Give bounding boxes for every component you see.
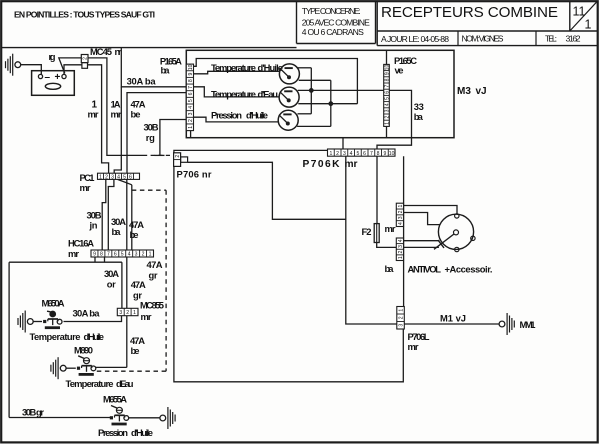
svg-text:8: 8 (100, 252, 103, 258)
svg-text:P706 nr: P706 nr (177, 168, 212, 179)
svg-text:gr: gr (149, 269, 158, 280)
svg-text:2: 2 (398, 210, 404, 213)
wire 30B gr left edge down (8, 262, 10, 417)
wire antivol lower pin1 to tick (404, 240, 440, 242)
svg-text:HC16A: HC16A (68, 238, 94, 249)
wire ground to M650A (33, 321, 42, 323)
wire ground to battery - terminal (21, 65, 42, 75)
label Pression d Huile (sensor) (98, 427, 153, 438)
svg-text:mr: mr (68, 248, 79, 259)
svg-text:8: 8 (188, 79, 194, 82)
svg-text:EN POINTILLES : TOUS TYPES SAU: EN POINTILLES : TOUS TYPES SAUF GTI (14, 9, 155, 19)
bus v1 vertical (310, 68, 312, 114)
connector strip antivol upper (396, 203, 404, 226)
ground (M890) (51, 357, 66, 379)
connector strip PC1 (98, 173, 140, 180)
svg-text:1: 1 (384, 122, 390, 125)
label Temperature d Huile (sensor) (30, 331, 105, 342)
gauge temperature huile (279, 64, 299, 84)
svg-text:1: 1 (398, 205, 404, 208)
svg-text:gr: gr (133, 289, 142, 300)
bus v2 vertical (330, 80, 332, 126)
svg-text:6: 6 (363, 151, 366, 157)
connector strip P706K (328, 149, 396, 157)
svg-text:8: 8 (384, 78, 390, 81)
connector strip P165A (186, 64, 193, 131)
svg-text:be: be (130, 229, 139, 240)
gauge temperature eau (279, 87, 299, 107)
svg-text:or: or (107, 278, 116, 289)
svg-text:3: 3 (398, 216, 404, 219)
sensor M650A temperature huile (43, 311, 62, 328)
svg-text:30A ba: 30A ba (127, 75, 157, 86)
svg-text:5: 5 (121, 252, 124, 258)
svg-text:–: – (45, 72, 51, 83)
label 33 ba (414, 101, 424, 122)
svg-text:4: 4 (128, 252, 131, 258)
header: type concerne box (297, 1, 376, 43)
wire gauge2 output to P165C pin6 (298, 89, 384, 91)
connector MC45 (81, 55, 88, 69)
junction dot v2 (329, 102, 333, 106)
P165C stub to box top (386, 50, 388, 64)
svg-text:Temperature: Temperature (211, 88, 256, 99)
label Pression d Huile (gauge) (211, 109, 268, 120)
svg-text:jn: jn (89, 220, 98, 231)
label P165C ve (394, 55, 417, 76)
svg-text:5: 5 (356, 151, 359, 157)
svg-text:4 OU 6 CADRANS: 4 OU 6 CADRANS (302, 27, 364, 37)
label ANTIVOL +Accessoir. (408, 264, 493, 275)
dashed wire 47A gr horizontal (132, 189, 166, 191)
svg-text:7: 7 (370, 151, 373, 157)
svg-text:9: 9 (188, 73, 194, 76)
wire M1 vJ to ground MM1 (404, 323, 499, 325)
svg-text:Pression: Pression (211, 109, 242, 120)
svg-text:7: 7 (107, 252, 110, 258)
wire loop P706 down around to P706L (174, 166, 403, 381)
svg-text:1: 1 (398, 256, 404, 259)
svg-text:7: 7 (188, 86, 194, 89)
svg-text:Temperature: Temperature (211, 62, 256, 73)
svg-text:MM1: MM1 (520, 319, 536, 330)
label MC45 nr (90, 46, 122, 57)
battery BB1 (32, 71, 75, 96)
wire P165A pin7 to gauge2 left (194, 87, 280, 97)
wire 1A mr : MC45 top to P706 (88, 58, 143, 155)
wire feed line gauge2 lower to L1 (298, 103, 357, 105)
ground MM1 (499, 313, 514, 335)
wire 47A be PC1 pin5 to HC16A (126, 179, 128, 250)
wire P706 output to junction (188, 162, 346, 219)
label Temperature d Huile (gauge) (211, 62, 283, 73)
svg-text:ba: ba (385, 263, 395, 274)
wire 30B gr to M655A (9, 417, 110, 419)
svg-text:ba: ba (161, 65, 171, 76)
label 47A be (131, 99, 146, 120)
label 47A gr (solid wire) (131, 279, 146, 300)
svg-text:TEL:: TEL: (545, 34, 557, 44)
svg-text:M1 vJ: M1 vJ (440, 313, 466, 324)
wire ground to M890 (66, 367, 76, 369)
wire 30A ba PC1 pin3 to HC16A (108, 179, 114, 250)
wire antivol lower to arm end (404, 246, 439, 248)
svg-text:2: 2 (83, 57, 89, 60)
svg-text:M650A: M650A (42, 297, 65, 308)
svg-text:mr: mr (88, 109, 99, 120)
svg-text:1: 1 (188, 126, 194, 129)
svg-text:4: 4 (398, 239, 404, 242)
svg-text:mr: mr (385, 223, 396, 234)
wire battery + to MC45 top (diagonal) (59, 58, 82, 74)
svg-text:be: be (131, 345, 140, 356)
label Temperature d Eau (gauge) (211, 88, 278, 99)
svg-text:205 AVEC COMBINE: 205 AVEC COMBINE (302, 18, 370, 28)
wire from diagonal to HC16A cell3 (131, 185, 133, 250)
svg-text:1: 1 (133, 310, 136, 316)
label M3 vJ (457, 86, 487, 97)
svg-text:mr: mr (141, 311, 152, 322)
svg-text:30A ba: 30A ba (73, 308, 101, 319)
wire 47A be : P165A pin6 to PC1 pin5 (127, 93, 186, 174)
svg-text:4: 4 (350, 151, 353, 157)
junction dot v1 (309, 89, 313, 93)
wire gauge1 upper output to bus v1 (297, 67, 311, 69)
gauge pression huile (278, 110, 298, 130)
svg-text:+Accessoir.: +Accessoir. (445, 264, 493, 275)
svg-text:4: 4 (398, 222, 404, 225)
svg-text:d'Huile: d'Huile (246, 109, 268, 120)
svg-text:2: 2 (142, 252, 145, 258)
P165A stub to box bottom (190, 131, 192, 138)
svg-text:M3: M3 (457, 86, 471, 97)
label 47A be (sensor) (130, 335, 145, 356)
svg-text:MC45: MC45 (90, 46, 112, 57)
ignition switch ANTIVOL circle (434, 214, 475, 252)
svg-text:2: 2 (336, 151, 339, 157)
wire M655A to ground (129, 417, 160, 419)
dashed wire 47A gr to M890 (95, 370, 166, 372)
wire antivol pin1 to top contact (404, 206, 458, 214)
label 30A ba (111, 216, 126, 237)
svg-text:rg: rg (49, 51, 56, 62)
svg-text:30B gr: 30B gr (22, 407, 44, 418)
svg-text:1: 1 (149, 252, 152, 258)
label Temperature d Eau (sensor) (66, 378, 134, 389)
svg-text:5: 5 (188, 99, 194, 102)
label 1 mr (88, 100, 99, 120)
svg-text:6: 6 (129, 175, 132, 181)
connector strip MC855 (117, 308, 138, 316)
wire antivol pin3 stepped to circle (404, 213, 440, 225)
svg-text:9: 9 (384, 72, 390, 75)
svg-text:1: 1 (329, 151, 332, 157)
wire 30B jn PC1 pin2 to HC16A (102, 179, 106, 250)
wire gauge1 lower output to bus v2 (299, 79, 331, 81)
instrument cluster box M3 (186, 50, 454, 137)
label 47A gr (dashed wire) (147, 259, 163, 280)
svg-text:ba: ba (414, 111, 424, 122)
svg-text:7: 7 (384, 85, 390, 88)
svg-text:6: 6 (188, 92, 194, 95)
header: sheet number 11/1 (570, 1, 597, 31)
bus wire 30B/30A horizontal (9, 261, 122, 263)
svg-text:mr: mr (111, 109, 122, 120)
svg-text:Temperature: Temperature (66, 378, 114, 389)
wire 47A be to M890 (95, 366, 127, 368)
svg-text:mr: mr (80, 182, 91, 193)
wire battery + to MC45 bottom (64, 65, 82, 75)
connector strip P165C (384, 64, 391, 126)
svg-text:2: 2 (398, 316, 404, 319)
wire feed from P165A pin10 across top (194, 59, 358, 104)
svg-text:M655A: M655A (103, 394, 127, 405)
label PC1 mr (80, 172, 95, 193)
svg-text:ba: ba (112, 226, 122, 237)
svg-text:d'Huile: d'Huile (131, 427, 153, 438)
svg-text:M890: M890 (74, 345, 93, 356)
svg-text:3: 3 (343, 151, 346, 157)
svg-text:9: 9 (93, 252, 96, 258)
svg-text:1: 1 (585, 18, 592, 32)
header: note box EN POINTILLES (1, 9, 296, 47)
ground (M650A) (18, 311, 33, 333)
label 30B jn (87, 210, 102, 231)
svg-text:4: 4 (384, 103, 390, 106)
connector P706 (174, 153, 188, 167)
svg-text:2: 2 (126, 310, 129, 316)
label P706L mr (408, 331, 430, 352)
switch arm tick (438, 240, 444, 248)
ground chassis (battery) (6, 54, 21, 76)
label P706K mr (303, 159, 358, 170)
svg-text:10: 10 (384, 65, 390, 71)
svg-text:TYPE CONCERNE:: TYPE CONCERNE: (302, 6, 361, 16)
header: info row (381, 31, 581, 46)
svg-text:11: 11 (573, 5, 586, 19)
label HC16A mr (68, 238, 94, 260)
fuse F2 (374, 224, 379, 243)
svg-text:10: 10 (389, 151, 395, 157)
wire HC16A cell9 down to 30B bus (94, 257, 96, 262)
label 47A be (129, 219, 144, 240)
svg-text:9: 9 (383, 151, 386, 157)
svg-text:3162: 3162 (566, 34, 581, 44)
connector strip antivol lower (396, 238, 404, 261)
wire 30A ba branch down to PC1 pin3 (114, 87, 121, 173)
svg-text:3: 3 (399, 324, 405, 327)
switch arm (434, 234, 454, 249)
connector strip HC16A (91, 250, 154, 258)
svg-text:mr: mr (345, 159, 358, 170)
svg-text:mr: mr (408, 341, 419, 352)
svg-text:rg: rg (146, 132, 155, 143)
svg-text:F2: F2 (362, 226, 372, 237)
wire 30A or down to MC855 (121, 262, 123, 308)
svg-text:5: 5 (384, 97, 390, 100)
svg-text:6: 6 (384, 91, 390, 94)
sensor M655A pression huile (110, 406, 129, 425)
wire F2 to antivol connector (377, 243, 397, 248)
svg-text:d'Huile: d'Huile (84, 331, 105, 342)
sensor M890 temperature eau (77, 356, 96, 375)
wire HC16A cell8 down to 30A bus (104, 257, 106, 262)
svg-text:d'Eau: d'Eau (258, 88, 279, 99)
svg-text:2: 2 (188, 119, 194, 122)
dashed wire 47A gr vertical (165, 190, 167, 371)
svg-text:vJ: vJ (476, 86, 487, 97)
svg-text:3: 3 (384, 109, 390, 112)
svg-text:1: 1 (99, 175, 102, 181)
wire 30A ba from border to P165A pin7 (121, 48, 186, 87)
label MC855 mr (140, 300, 164, 322)
wire 30B rg : P165A pin2 to junction (160, 120, 186, 156)
wire P165A pin3 to gauge3 left (194, 117, 280, 122)
wire P165A pin9 to gauge1 left (194, 71, 280, 74)
svg-text:RECEPTEURS COMBINE: RECEPTEURS COMBINE (381, 4, 558, 21)
svg-text:MC855: MC855 (140, 300, 164, 311)
wire 1A mr dashed section into P706 (143, 154, 174, 156)
ground (M655A) (160, 407, 175, 429)
svg-text:2: 2 (384, 116, 390, 119)
svg-text:Temperature: Temperature (30, 331, 81, 342)
svg-text:3: 3 (119, 310, 122, 316)
wire gauge3 upper output to bus v1 (298, 113, 312, 115)
header: title block RECEPTEURS COMBINE (377, 1, 598, 45)
wire 47A gr HC16A cell4 down to MC855 (126, 257, 128, 308)
wire 30A ba MC855 to M650A (64, 316, 122, 322)
svg-text:5: 5 (123, 175, 126, 181)
svg-text:2: 2 (398, 251, 404, 254)
wire 33 ba : P165C pin6 to P706K pin8 (377, 90, 412, 149)
wire gauge3 lower output to bus v2 (297, 125, 331, 127)
svg-text:ANTIVOL: ANTIVOL (408, 264, 442, 275)
svg-text:6: 6 (114, 252, 117, 258)
svg-text:3: 3 (135, 252, 138, 258)
svg-text:Pression: Pression (98, 427, 128, 438)
wire diagonal PC1 pin4 (118, 179, 132, 184)
svg-text:ve: ve (395, 65, 404, 76)
svg-text:A JOUR LE: 04-05-88: A JOUR LE: 04-05-88 (381, 34, 449, 44)
svg-text:be: be (131, 109, 141, 120)
label 30A or (104, 268, 119, 289)
wire P706K pin10 down to P706L top (403, 156, 405, 306)
svg-text:NOM: VIGNES: NOM: VIGNES (462, 34, 504, 44)
connector strip P706L (397, 307, 405, 330)
wire P706K pin8 down to fuse F2 (376, 156, 378, 223)
wire 1 mr : MC45 bottom to PC1 pin2 (88, 65, 109, 173)
svg-text:8: 8 (377, 151, 380, 157)
wire P706K pin3 down to P706L (346, 156, 397, 324)
label 30B rg (144, 122, 159, 143)
svg-text:d'Eau: d'Eau (116, 378, 134, 389)
label P165A ba (160, 55, 182, 75)
wire M3 bottom to P706K pin3 (342, 138, 344, 149)
svg-text:+: + (55, 72, 61, 83)
P165C stub to box bottom (386, 126, 388, 137)
svg-text:3: 3 (398, 245, 404, 248)
svg-text:1: 1 (399, 309, 405, 312)
svg-text:4: 4 (188, 106, 194, 109)
wire junction patch at 30B rg (155, 154, 165, 156)
svg-text:10: 10 (188, 64, 194, 70)
svg-text:3: 3 (188, 112, 194, 115)
svg-text:P706K: P706K (303, 159, 341, 170)
wire 47A be MC855 down (126, 316, 128, 368)
wire P706 to P706K pin1 (174, 150, 328, 152)
label 1A mr (111, 99, 122, 120)
